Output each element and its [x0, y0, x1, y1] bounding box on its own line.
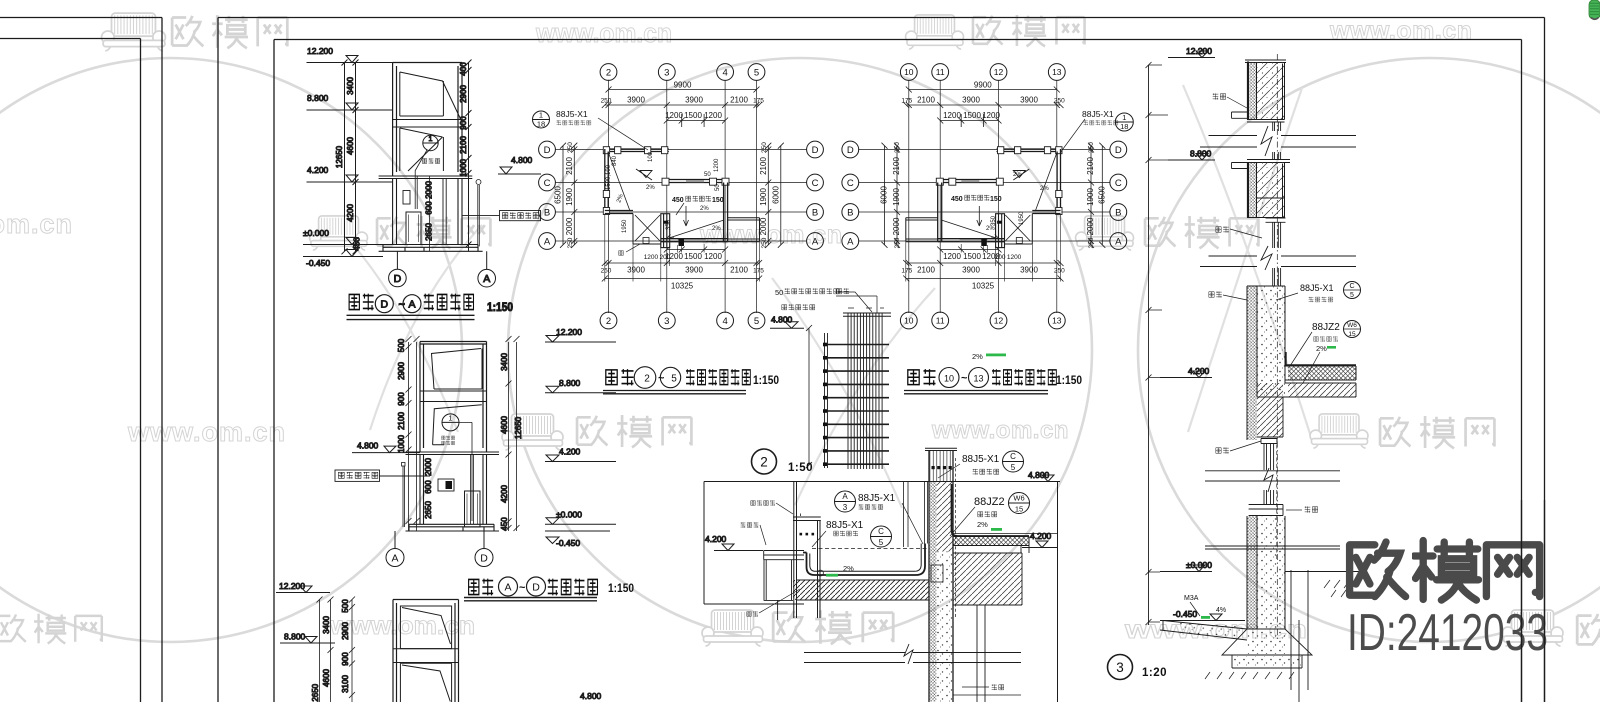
svg-text:3900: 3900	[962, 96, 980, 105]
axis bubbles bottom	[600, 312, 765, 329]
boundary	[704, 482, 1058, 702]
svg-text:250: 250	[1088, 237, 1095, 248]
svg-text:1500: 1500	[963, 111, 981, 120]
level 12.200	[276, 581, 330, 593]
svg-text:4.200: 4.200	[705, 534, 727, 544]
svg-text:8.800: 8.800	[559, 378, 581, 388]
svg-text:1500: 1500	[684, 252, 702, 261]
svg-text:12: 12	[994, 67, 1004, 77]
svg-text:-0.450: -0.450	[1173, 609, 1197, 619]
svg-text:5: 5	[754, 316, 759, 327]
level mark 4.800 right	[498, 155, 541, 174]
left bar with squares	[825, 333, 828, 468]
svg-text:5: 5	[1350, 292, 1354, 299]
svg-text:13: 13	[1052, 67, 1062, 77]
svg-text:88J5-X1: 88J5-X1	[556, 109, 588, 119]
lower walls	[420, 455, 487, 525]
svg-text:2%: 2%	[972, 352, 983, 361]
svg-text:1950: 1950	[1019, 211, 1025, 225]
svg-text:2000: 2000	[1086, 217, 1095, 235]
dim chains right	[500, 336, 523, 531]
band	[393, 649, 459, 663]
svg-text:D: D	[544, 145, 551, 156]
long slab lines pair 2	[1200, 256, 1356, 267]
svg-text:A: A	[1115, 236, 1122, 247]
right dim chains	[768, 146, 781, 245]
svg-text:2900: 2900	[397, 362, 406, 380]
axis bubble A	[478, 251, 496, 287]
long slab lines pair 3	[1205, 471, 1340, 481]
svg-text:600: 600	[424, 480, 433, 494]
svg-text:2000: 2000	[425, 181, 434, 199]
mullion pair	[443, 179, 446, 245]
door	[406, 212, 421, 245]
svg-text:2100: 2100	[1086, 157, 1095, 175]
svg-text:1500: 1500	[963, 252, 981, 261]
svg-text:450: 450	[951, 196, 963, 203]
top cap	[843, 313, 891, 316]
callout circle 1	[442, 413, 459, 431]
wall axis4 (right)	[724, 183, 728, 242]
svg-text:4600: 4600	[346, 137, 355, 155]
slab hatch under gutter	[793, 580, 929, 600]
svg-text:88J5-X1: 88J5-X1	[1082, 109, 1114, 119]
svg-text:2: 2	[606, 67, 611, 78]
svg-text:1: 1	[429, 136, 433, 143]
svg-text:4.800: 4.800	[511, 155, 533, 165]
svg-text:18: 18	[1120, 122, 1128, 131]
tiny label at pocket	[619, 244, 640, 255]
svg-text:2%: 2%	[700, 206, 709, 212]
svg-text:B: B	[847, 207, 853, 218]
svg-text:250: 250	[1088, 142, 1095, 153]
gate leaves X	[635, 215, 660, 241]
svg-text:A: A	[847, 236, 854, 247]
svg-text:100: 100	[648, 151, 654, 162]
watermark row 4	[0, 614, 102, 644]
detail ref circle 2	[752, 449, 777, 474]
svg-text:3900: 3900	[685, 266, 703, 275]
svg-text:±0.000: ±0.000	[1186, 560, 1212, 570]
slope arrows right room	[666, 220, 724, 239]
svg-text:C: C	[544, 178, 551, 189]
membrane climbing wall right face	[952, 484, 1030, 536]
svg-text:12.200: 12.200	[1186, 46, 1212, 56]
svg-text:1500,100: 1500,100	[606, 164, 612, 190]
svg-text:8.800: 8.800	[307, 93, 329, 103]
svg-text:2000: 2000	[565, 217, 574, 235]
labels 88J5 etc	[1276, 282, 1361, 384]
svg-text:D: D	[812, 145, 819, 156]
sill	[1249, 505, 1283, 516]
callout 88J5-X1 with circle 1/18	[533, 109, 649, 150]
svg-text:350: 350	[991, 215, 997, 226]
title elevation A-D	[464, 577, 634, 601]
svg-text:50: 50	[775, 288, 783, 297]
svg-text:8.800: 8.800	[284, 632, 306, 642]
svg-text:250: 250	[894, 237, 901, 248]
soil hatch marks	[1324, 580, 1358, 597]
canopy right	[728, 218, 760, 242]
wall column	[929, 451, 953, 702]
footing	[1222, 629, 1312, 655]
svg-text:1000: 1000	[397, 435, 406, 453]
big site watermark 欧模网	[1350, 541, 1540, 601]
axis bubble D	[475, 531, 493, 567]
tiny labels left	[741, 500, 800, 616]
svg-text:4.800: 4.800	[580, 691, 602, 701]
svg-text:-0.450: -0.450	[306, 258, 330, 268]
ground apron (sloped)	[1160, 621, 1247, 641]
svg-text:D: D	[394, 273, 402, 285]
watermark row 1	[102, 13, 166, 51]
svg-text:1900: 1900	[892, 188, 901, 206]
svg-text:1000: 1000	[459, 159, 468, 177]
svg-text:C: C	[812, 178, 819, 189]
svg-text:12.200: 12.200	[556, 327, 582, 337]
svg-text:3900: 3900	[627, 266, 645, 275]
left dim chains	[563, 146, 574, 245]
svg-text:50: 50	[704, 172, 711, 178]
svg-text:www.om.cn: www.om.cn	[0, 209, 73, 239]
tower walls	[420, 342, 487, 453]
pipes right going down	[1291, 570, 1308, 702]
svg-text:4200: 4200	[346, 204, 355, 222]
svg-text:M3A: M3A	[1184, 595, 1199, 602]
svg-text:4600: 4600	[500, 416, 509, 434]
svg-text:3900: 3900	[1020, 96, 1038, 105]
svg-text:2: 2	[644, 373, 650, 384]
svg-text:A: A	[408, 299, 415, 311]
small interior texts	[606, 151, 721, 233]
svg-text:3: 3	[1116, 660, 1124, 675]
small interior texts plan2	[986, 172, 1049, 232]
svg-text:88JZ2: 88JZ2	[1312, 322, 1340, 333]
band	[420, 391, 487, 402]
floor slab lines right	[1205, 546, 1340, 549]
svg-text:3900: 3900	[1020, 266, 1038, 275]
svg-text:250: 250	[761, 142, 768, 153]
svg-text:10: 10	[904, 316, 914, 326]
block 4	[1247, 516, 1257, 629]
svg-text:www.om.cn: www.om.cn	[329, 612, 475, 640]
gutter channel (waterproof membrane)	[803, 544, 925, 576]
axis bubbles right D C B A	[807, 141, 824, 249]
svg-text:12650: 12650	[335, 145, 344, 168]
svg-text:88JZ2: 88JZ2	[974, 496, 1005, 508]
svg-text:500: 500	[341, 599, 350, 613]
svg-text:4.800: 4.800	[357, 441, 379, 451]
bottom dim lines	[664, 247, 728, 253]
axis grid horizontal lines	[555, 150, 807, 242]
dimension chain left	[335, 60, 362, 255]
svg-text:1: 1	[1122, 113, 1126, 122]
level -0.450 right	[545, 531, 610, 548]
svg-text:5: 5	[671, 373, 677, 384]
svg-text:600: 600	[425, 201, 434, 215]
svg-text:2%: 2%	[646, 185, 655, 191]
lower window	[400, 663, 451, 702]
dim texts	[601, 81, 765, 291]
roof drain symbol	[636, 169, 652, 180]
svg-text:2100: 2100	[917, 266, 935, 275]
svg-text:1200: 1200	[714, 158, 720, 172]
svg-text:3: 3	[664, 316, 669, 327]
svg-text:3: 3	[843, 503, 848, 512]
svg-text:3900: 3900	[627, 96, 645, 105]
svg-text:50: 50	[715, 184, 721, 191]
wall A (bottom)	[661, 239, 728, 242]
axis bubbles left D C B A	[539, 141, 556, 249]
level 4.200 right	[545, 447, 616, 462]
detail callout circle 1	[423, 135, 438, 150]
lintel label	[962, 684, 1004, 690]
rotated dim texts left	[554, 142, 574, 249]
parapet block top	[1245, 60, 1286, 63]
tower top window flag	[400, 72, 462, 121]
svg-text:~: ~	[519, 582, 526, 594]
svg-text:2100: 2100	[759, 157, 768, 175]
svg-text:3400: 3400	[500, 353, 509, 371]
level 4.200 right	[1022, 531, 1058, 548]
svg-text:2%: 2%	[1040, 186, 1049, 192]
level mark 8.800	[307, 93, 393, 110]
svg-text:10: 10	[904, 67, 914, 77]
svg-text:175: 175	[753, 268, 764, 275]
svg-text:18: 18	[537, 120, 545, 129]
extension lines bottom	[605, 214, 760, 282]
level mark 0.000	[303, 228, 393, 245]
level 8.800 right	[545, 378, 616, 393]
svg-text:450: 450	[500, 517, 509, 531]
dim chains left	[397, 336, 433, 531]
rungs	[824, 345, 889, 465]
wall section top line	[379, 176, 473, 179]
svg-text:4600: 4600	[322, 669, 331, 687]
svg-text:C: C	[878, 527, 884, 536]
svg-text:1950: 1950	[622, 219, 628, 233]
svg-text:13: 13	[973, 373, 983, 383]
svg-text:A: A	[544, 236, 551, 247]
gutter label 450...	[672, 196, 724, 215]
svg-text:12.200: 12.200	[307, 46, 333, 56]
svg-text:D: D	[847, 145, 854, 156]
svg-text:12: 12	[994, 316, 1004, 326]
svg-text:4.200: 4.200	[1030, 531, 1052, 541]
level -0.450	[1160, 609, 1245, 621]
svg-text:C: C	[847, 178, 854, 189]
svg-text:www.om.cn: www.om.cn	[931, 417, 1069, 444]
svg-text:2%: 2%	[1013, 172, 1022, 178]
svg-text:200 1200: 200 1200	[995, 254, 1022, 261]
gutter label 450	[951, 195, 1002, 203]
level mark 12.200	[307, 46, 393, 63]
svg-text:12650: 12650	[311, 683, 320, 702]
svg-text:1200: 1200	[982, 111, 1000, 120]
svg-text:www.om.cn: www.om.cn	[535, 18, 672, 48]
svg-text:2100: 2100	[459, 136, 468, 154]
wall axis2 (left)	[605, 149, 608, 212]
svg-text:1200: 1200	[704, 252, 722, 261]
svg-text:1500: 1500	[684, 111, 702, 120]
svg-text:D: D	[480, 552, 488, 564]
svg-text:10325: 10325	[671, 282, 694, 291]
gate pocket room	[633, 214, 661, 245]
inner lower dim chain	[425, 176, 434, 251]
dimension chain right	[459, 60, 472, 252]
pipes / mullions	[471, 455, 474, 525]
svg-text:3400: 3400	[322, 616, 331, 634]
svg-text:150: 150	[712, 197, 724, 204]
svg-text:-0.450: -0.450	[556, 538, 580, 548]
base steps	[379, 245, 483, 252]
svg-text:1:150: 1:150	[608, 583, 634, 595]
svg-text:10325: 10325	[972, 282, 995, 291]
vertical grille bars	[848, 313, 882, 469]
svg-text:4.800: 4.800	[771, 315, 793, 325]
svg-text:150: 150	[990, 196, 1002, 203]
svg-text:4: 4	[722, 67, 727, 78]
svg-text:1: 1	[539, 111, 543, 120]
svg-text:6500: 6500	[554, 186, 563, 204]
svg-text:www.om.cn: www.om.cn	[127, 417, 286, 447]
svg-text:A: A	[504, 581, 511, 593]
svg-text:A: A	[483, 273, 490, 285]
svg-text:±0.000: ±0.000	[303, 228, 329, 238]
level 8.800	[280, 632, 335, 644]
svg-text:2%: 2%	[843, 564, 854, 573]
svg-text:www.om.cn: www.om.cn	[1329, 17, 1472, 45]
tile label box	[462, 211, 541, 221]
svg-text:88J5-X1: 88J5-X1	[962, 454, 1000, 465]
svg-text:1200: 1200	[665, 111, 683, 120]
svg-text:5: 5	[754, 67, 759, 78]
svg-text:88J5-X1: 88J5-X1	[858, 493, 896, 504]
svg-text:A: A	[391, 552, 398, 564]
plan 2 mirrored geometry	[858, 80, 1110, 313]
top window flag	[432, 349, 483, 390]
tower	[393, 600, 459, 702]
level 4.800 left	[352, 441, 420, 453]
light swoosh arcs	[342, 85, 1312, 508]
svg-text:2900: 2900	[459, 85, 468, 103]
svg-text:5: 5	[879, 538, 884, 547]
svg-text:3400: 3400	[346, 77, 355, 95]
svg-text:1:150: 1:150	[487, 302, 513, 314]
svg-text:350: 350	[666, 219, 672, 230]
svg-text:C: C	[1349, 283, 1354, 290]
svg-text:~: ~	[961, 373, 968, 385]
top dim line 1200-1500-1200	[664, 114, 728, 127]
svg-text:A: A	[812, 236, 819, 247]
equipment box	[403, 191, 410, 205]
block 2	[1247, 160, 1290, 163]
tower mid window	[400, 128, 444, 171]
svg-text:12650: 12650	[514, 416, 523, 439]
svg-text:175: 175	[901, 98, 912, 105]
window mullion 2 with break	[1266, 218, 1286, 222]
level 4.200	[1160, 366, 1212, 378]
svg-text:11: 11	[936, 316, 945, 326]
lower-left wall lines	[764, 560, 793, 620]
svg-text:D: D	[532, 581, 540, 593]
svg-text:175: 175	[753, 98, 764, 105]
svg-text:9900: 9900	[674, 81, 692, 90]
right diagonal hatch zone	[953, 553, 1022, 605]
svg-text:15: 15	[1348, 331, 1356, 338]
equipment box	[438, 479, 454, 491]
svg-text:4.200: 4.200	[1188, 366, 1210, 376]
labels top-left callouts	[812, 491, 923, 547]
svg-text:4%: 4%	[1216, 607, 1226, 614]
left sheet border frame	[0, 18, 162, 702]
wall section top	[406, 452, 500, 455]
svg-text:2100: 2100	[397, 412, 406, 430]
title elevation D-A	[347, 294, 514, 320]
svg-text:W6: W6	[1013, 494, 1024, 503]
svg-text:2000: 2000	[424, 458, 433, 476]
svg-text:1200: 1200	[943, 252, 961, 261]
dim chains	[311, 597, 355, 702]
svg-text:250: 250	[601, 268, 612, 275]
svg-text:2650: 2650	[425, 223, 434, 241]
svg-text:88J5-X1: 88J5-X1	[1300, 283, 1334, 293]
level 4.800 right	[1028, 470, 1060, 482]
svg-text:4200: 4200	[500, 485, 509, 503]
axis grid vertical lines	[609, 80, 757, 313]
tower band	[393, 120, 462, 128]
lower walls	[393, 179, 462, 245]
rotated dim texts right	[759, 142, 781, 249]
svg-text:250: 250	[894, 142, 901, 153]
svg-text:2%: 2%	[1316, 344, 1327, 353]
flag pole right	[478, 185, 480, 246]
svg-text:6000: 6000	[880, 186, 889, 204]
svg-text:W6: W6	[1347, 322, 1357, 329]
callout 88J5-X1 circle 1/18 (right)	[1060, 109, 1133, 153]
level 0.000	[1160, 560, 1212, 572]
svg-text:3900: 3900	[962, 266, 980, 275]
svg-text:250: 250	[567, 142, 574, 153]
svg-text:ID:2412033: ID:2412033	[1347, 604, 1548, 662]
detail ref circle 3	[1108, 655, 1133, 680]
level 12.200	[1168, 46, 1215, 58]
base	[406, 524, 500, 531]
wall C	[664, 180, 728, 183]
svg-text:4.200: 4.200	[307, 165, 329, 175]
door	[465, 491, 481, 527]
svg-text:3100: 3100	[341, 675, 350, 693]
level 4.200 left	[705, 534, 763, 551]
svg-text:10: 10	[944, 373, 954, 383]
svg-text:4.800: 4.800	[1028, 470, 1050, 480]
left ledge	[764, 551, 804, 560]
svg-text:2%: 2%	[712, 226, 721, 232]
level mark -0.450	[303, 250, 383, 269]
window mullion 3 with break	[1261, 439, 1277, 444]
column squares on wall D	[603, 147, 668, 154]
svg-text:A: A	[842, 492, 848, 501]
svg-text:6500: 6500	[1098, 186, 1107, 204]
svg-text:1:150: 1:150	[753, 375, 779, 387]
svg-text:2900: 2900	[341, 622, 350, 640]
svg-text:C: C	[1115, 178, 1122, 189]
svg-text:250: 250	[601, 98, 612, 105]
tower top box walls	[393, 63, 462, 177]
svg-text:4: 4	[722, 316, 727, 327]
svg-text:2100: 2100	[730, 266, 748, 275]
pole left	[403, 466, 405, 527]
